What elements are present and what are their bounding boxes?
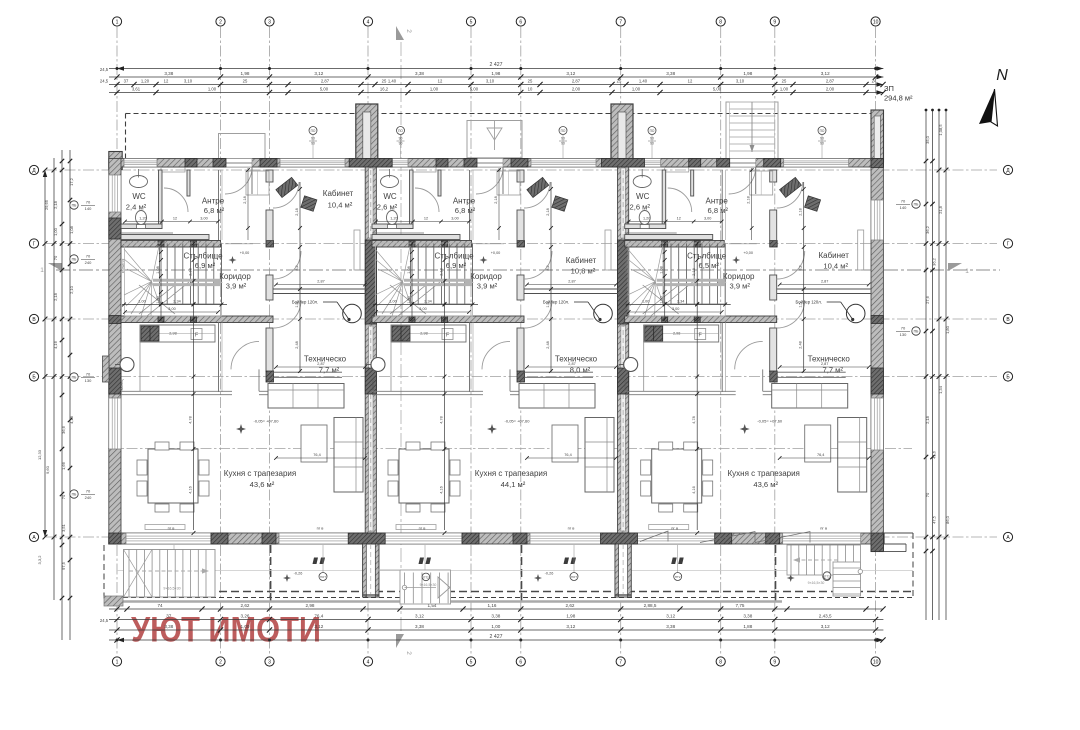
- svg-text:76,4: 76,4: [817, 453, 824, 457]
- svg-text:пг в: пг в: [568, 526, 575, 531]
- svg-text:6,5 м²: 6,5 м²: [698, 261, 719, 270]
- svg-text:5,00: 5,00: [470, 87, 479, 92]
- svg-text:Коридор: Коридор: [723, 272, 755, 281]
- svg-text:2,34: 2,34: [424, 300, 431, 304]
- svg-text:240: 240: [85, 495, 92, 500]
- unit 2 entrance door arc: [476, 167, 503, 194]
- svg-text:70: 70: [901, 199, 906, 204]
- svg-text:1,66: 1,66: [61, 461, 66, 470]
- unit 2 kitchen counter: [391, 325, 466, 342]
- unit 3 antre closet: [750, 171, 773, 195]
- unit 1 kabinet desk: [276, 177, 298, 197]
- svg-text:1,00: 1,00: [208, 87, 217, 92]
- unit 2 entrance door opening: [476, 159, 503, 168]
- unit 1 stair arrow band: [153, 279, 221, 282]
- unit 2 antre-kabinet door arc: [524, 182, 550, 208]
- svg-text:37: 37: [166, 614, 172, 619]
- unit 1 stair dim chain A: [160, 242, 162, 321]
- svg-text:3,00: 3,00: [168, 307, 175, 311]
- svg-text:6,9 м²: 6,9 м²: [195, 261, 216, 270]
- svg-text:17,2: 17,2: [69, 177, 74, 186]
- svg-text:2,10: 2,10: [69, 285, 74, 294]
- svg-text:25: 25: [617, 79, 622, 84]
- svg-text:3,61: 3,61: [132, 87, 141, 92]
- unit 1 terrace glyphs: [168, 558, 174, 565]
- svg-text:3,38: 3,38: [491, 614, 500, 619]
- svg-text:5: 5: [470, 19, 473, 25]
- svg-text:ЗП: ЗП: [884, 84, 894, 93]
- svg-text:1,08: 1,08: [407, 266, 411, 273]
- svg-text:9: 9: [773, 19, 776, 25]
- unit 3 bottom wall dark blocks: [715, 533, 732, 544]
- unit 2 dining table: [399, 449, 449, 503]
- svg-text:ПО: ПО: [561, 129, 566, 133]
- svg-text:3,12: 3,12: [314, 71, 323, 76]
- grid axis 3: [269, 27, 271, 656]
- svg-text:Кюнец: Кюнец: [371, 380, 375, 391]
- left wall window and blocks: [109, 398, 121, 449]
- section line 1: [56, 269, 1000, 271]
- unit 1 kabinet/tehnichesko divider wall: [273, 288, 368, 290]
- svg-text:6,8 м²: 6,8 м²: [455, 206, 476, 215]
- unit 2 bottom wall dark blocks: [462, 533, 479, 544]
- svg-text:3: 3: [268, 659, 271, 665]
- unit 1 corridor-tehnichesko door arc: [273, 300, 301, 328]
- unit 2 WC bottom wall / washbasin counter: [372, 224, 413, 229]
- unit 1 axis G wall: [121, 241, 221, 248]
- svg-text:130: 130: [85, 378, 92, 383]
- svg-text:2,34: 2,34: [173, 300, 180, 304]
- svg-text:3,3,2: 3,3,2: [37, 555, 42, 565]
- svg-text:1,20: 1,20: [390, 217, 397, 221]
- unit 2 kabinet wardrobe: [605, 230, 611, 270]
- grid axis 9: [774, 27, 776, 656]
- unit 2 F label box: [442, 329, 453, 340]
- unit 1 bottom wall windows: [126, 533, 211, 544]
- svg-text:3,38: 3,38: [415, 624, 424, 629]
- svg-text:9: 9: [773, 659, 776, 665]
- svg-text:ПТ2: ПТ2: [675, 575, 681, 579]
- svg-text:2,6 м²: 2,6 м²: [377, 203, 398, 212]
- unit 2 stair dim chain horizontal: [373, 304, 478, 306]
- terrace bold dashed mid line: [123, 591, 913, 593]
- svg-text:8,2: 8,2: [295, 265, 299, 270]
- unit 1 stair dim chain horizontal: [122, 304, 227, 306]
- svg-text:6: 6: [519, 19, 522, 25]
- top dimension chains: [109, 68, 883, 70]
- svg-text:Кабинет: Кабинет: [818, 251, 849, 260]
- svg-text:1: 1: [40, 267, 44, 274]
- unit 1 corridor east wall: [266, 275, 273, 300]
- unit 3 corridor-kitchen door arc: [735, 341, 763, 369]
- svg-text:Антре: Антре: [202, 197, 225, 206]
- unit 2 interior dim chain vertical: [498, 168, 500, 240]
- unit 3 kitchen counter: [644, 325, 719, 342]
- external stair unit 2: [400, 570, 451, 604]
- unit 2 WC sink: [381, 176, 399, 188]
- svg-text:ПБ: ПБ: [72, 258, 77, 262]
- grid axis 8: [720, 27, 722, 656]
- svg-text:70: 70: [925, 492, 930, 497]
- svg-text:70: 70: [86, 372, 91, 377]
- unit 2 under-stair diagonals: [390, 285, 426, 314]
- svg-text:4,78: 4,78: [692, 416, 696, 423]
- svg-text:2,48: 2,48: [295, 341, 299, 348]
- svg-text:2,18: 2,18: [747, 196, 751, 203]
- unit 3 tehnichesko south block: [770, 371, 778, 382]
- svg-text:1: 1: [116, 19, 119, 25]
- unit 1 corridor level mark: [229, 256, 237, 264]
- svg-text:3,9 м²: 3,9 м²: [477, 282, 498, 291]
- unit 3 stair dim chain B: [696, 242, 698, 530]
- unit 3 axis V wall: [625, 316, 777, 323]
- svg-text:12: 12: [688, 79, 693, 84]
- svg-text:1: 1: [965, 268, 969, 275]
- svg-text:2,18: 2,18: [494, 196, 498, 203]
- external stair above unit 3: [726, 102, 778, 159]
- svg-text:10,4 м²: 10,4 м²: [823, 262, 848, 271]
- svg-text:6,8 м²: 6,8 м²: [204, 206, 225, 215]
- unit 2 kabinet dim chain: [550, 182, 552, 372]
- svg-text:9×16,5×30: 9×16,5×30: [420, 583, 437, 587]
- unit 1 kitchen level mark: [236, 424, 246, 434]
- unit 3 corridor-kabinet door arc: [777, 251, 805, 279]
- svg-text:76,4: 76,4: [314, 614, 323, 619]
- unit 1 antre-kabinet door arc: [273, 182, 299, 208]
- section line 2: [400, 42, 402, 638]
- unit 3 sofa vertical: [838, 418, 867, 493]
- svg-text:2,87: 2,87: [317, 280, 324, 284]
- svg-text:3,38: 3,38: [666, 624, 675, 629]
- svg-text:2,18: 2,18: [53, 200, 58, 209]
- svg-text:1,98: 1,98: [566, 614, 575, 619]
- grid axis А: [46, 536, 997, 538]
- unit 3 kabinet wardrobe: [858, 230, 864, 270]
- unit 3 bottom wall windows: [630, 533, 715, 544]
- svg-text:1,00: 1,00: [138, 300, 145, 304]
- grid axis Д: [46, 169, 997, 171]
- unit 2 sofa horizontal: [519, 384, 595, 409]
- svg-text:Кухня с трапезария: Кухня с трапезария: [224, 469, 296, 478]
- svg-text:2,88,5: 2,88,5: [644, 603, 657, 608]
- unit 3 F label box: [695, 329, 706, 340]
- svg-text:24,5: 24,5: [100, 67, 109, 72]
- unit 3 radiator kitchen: [649, 525, 689, 530]
- svg-text:3,12: 3,12: [566, 624, 575, 629]
- svg-text:2,87: 2,87: [821, 280, 828, 284]
- unit 2 bottom wall windows: [377, 533, 462, 544]
- canopy unit 2 with drain: [467, 121, 522, 158]
- svg-text:2,48: 2,48: [546, 341, 550, 348]
- unit 3 hall stub wall: [691, 170, 694, 196]
- grid axis 1: [116, 27, 118, 656]
- svg-text:Г: Г: [1007, 241, 1010, 247]
- unit 3 kitchen level mark: [740, 424, 750, 434]
- unit 2 stair arrow band: [404, 279, 472, 282]
- svg-text:12: 12: [173, 217, 177, 221]
- external stair unit 1: [124, 550, 216, 598]
- svg-text:12: 12: [424, 217, 428, 221]
- svg-text:3,00: 3,00: [200, 217, 207, 221]
- svg-text:24: 24: [872, 79, 877, 84]
- unit 3 kabinet desk: [780, 177, 802, 197]
- party wall 2 terrace stub: [615, 544, 631, 597]
- unit 3 terrace level mark: [787, 574, 795, 582]
- svg-text:8: 8: [719, 19, 722, 25]
- unit 2 kabinet west wall upper: [517, 170, 524, 182]
- svg-text:140: 140: [900, 205, 907, 210]
- unit 1 bottom wall dark blocks: [211, 533, 228, 544]
- left exterior wall band: [109, 159, 121, 545]
- svg-text:ПО: ПО: [311, 129, 316, 133]
- svg-text:2: 2: [405, 651, 412, 655]
- svg-text:36,2: 36,2: [932, 257, 937, 266]
- unit 1 kitchen appliances: [141, 326, 159, 341]
- unit 1 kabinet wardrobe: [354, 230, 360, 270]
- svg-text:140: 140: [85, 206, 92, 211]
- svg-text:4,78: 4,78: [189, 416, 193, 423]
- svg-text:ПБ: ПБ: [72, 493, 77, 497]
- svg-text:Кабинет: Кабинет: [566, 256, 597, 265]
- svg-text:24,5: 24,5: [100, 79, 109, 84]
- svg-text:3,9 м²: 3,9 м²: [729, 282, 750, 291]
- svg-text:10: 10: [873, 19, 879, 25]
- svg-text:Техническо: Техническо: [555, 355, 598, 364]
- grid axis Б: [46, 376, 997, 378]
- unit 2 corridor-kitchen door arc: [482, 341, 510, 369]
- unit 1 entrance door arc: [225, 167, 252, 194]
- unit 1 WC toilet: [136, 211, 147, 225]
- svg-text:1,98: 1,98: [241, 71, 250, 76]
- svg-text:1,88: 1,88: [743, 624, 752, 629]
- unit 2 staircase: [376, 243, 473, 316]
- svg-text:12: 12: [438, 79, 443, 84]
- unit 3 WC bottom wall / washbasin counter: [625, 224, 666, 229]
- svg-text:2,18: 2,18: [546, 208, 550, 215]
- unit 1 staircase: [125, 243, 222, 316]
- unit 3 interior dim chain horizontal: [629, 221, 722, 223]
- unit 1 interior dim chain horizontal: [125, 221, 218, 223]
- right end wall protrusion: [871, 110, 884, 162]
- svg-text:27,6: 27,6: [925, 295, 930, 304]
- svg-text:1,40: 1,40: [639, 79, 648, 84]
- unit 2 corridor-tehnichesko door arc: [524, 300, 552, 328]
- svg-text:пг в: пг в: [820, 526, 827, 531]
- svg-text:76,4: 76,4: [564, 453, 571, 457]
- svg-text:2,18: 2,18: [53, 292, 58, 301]
- unit 3 sofa horizontal: [772, 384, 848, 409]
- svg-text:+0,00: +0,00: [240, 251, 250, 255]
- unit 1 coffee table: [301, 425, 327, 462]
- svg-text:WC: WC: [383, 192, 397, 201]
- svg-text:2,87: 2,87: [572, 79, 581, 84]
- parapet level marks left: [70, 201, 78, 209]
- svg-text:1,50: 1,50: [660, 296, 664, 303]
- unit 3 entrance door opening: [729, 159, 756, 168]
- svg-text:-0,26: -0,26: [294, 572, 303, 576]
- unit 1 radiator kitchen: [145, 525, 185, 530]
- unit 2 terrace glyphs: [419, 558, 425, 565]
- svg-text:2,48: 2,48: [799, 341, 803, 348]
- svg-text:WC: WC: [132, 192, 146, 201]
- svg-text:2,34: 2,34: [677, 300, 684, 304]
- svg-text:12: 12: [677, 217, 681, 221]
- svg-text:7: 7: [619, 19, 622, 25]
- svg-text:3,12: 3,12: [821, 71, 830, 76]
- svg-text:70: 70: [86, 489, 91, 494]
- svg-text:3,38: 3,38: [415, 71, 424, 76]
- svg-text:4,16: 4,16: [440, 486, 444, 493]
- svg-text:70: 70: [53, 255, 58, 260]
- svg-text:10: 10: [528, 87, 533, 92]
- unit 1 sofa vertical: [334, 418, 363, 493]
- svg-text:37: 37: [124, 79, 129, 84]
- svg-text:3: 3: [268, 19, 271, 25]
- svg-text:24,5: 24,5: [100, 618, 109, 623]
- unit 2 axis G wall: [372, 241, 472, 248]
- unit 3 terrace glyphs: [671, 558, 677, 565]
- svg-text:1,08: 1,08: [156, 266, 160, 273]
- right exterior wall band: [871, 159, 883, 552]
- svg-text:16,2: 16,2: [380, 87, 389, 92]
- unit 3 WC toilet: [639, 211, 650, 225]
- unit 1 boiler: [343, 304, 362, 323]
- unit 2 tehnichesko south wall: [524, 371, 593, 373]
- svg-text:8,2: 8,2: [546, 265, 550, 270]
- svg-text:ПБ: ПБ: [72, 376, 77, 380]
- unit 1 stair landing line: [160, 303, 222, 305]
- svg-text:+0,00: +0,00: [491, 251, 501, 255]
- party wall 1 terrace stub: [363, 544, 379, 597]
- svg-text:Кюнец: Кюнец: [120, 380, 124, 391]
- unit 3 WC sink: [633, 176, 651, 188]
- svg-text:1,20: 1,20: [141, 79, 150, 84]
- svg-text:4,18: 4,18: [69, 415, 74, 424]
- svg-text:4,78: 4,78: [440, 416, 444, 423]
- svg-text:3,00: 3,00: [451, 217, 458, 221]
- svg-text:2,87: 2,87: [317, 362, 324, 366]
- svg-text:1,08: 1,08: [660, 266, 664, 273]
- parapet level marks right: [912, 200, 920, 208]
- svg-text:5,00: 5,00: [713, 87, 722, 92]
- svg-text:12,33: 12,33: [37, 449, 42, 460]
- unit 1 antre closet: [246, 171, 269, 195]
- svg-text:2,98: 2,98: [306, 603, 315, 608]
- grid axis 7: [620, 27, 622, 656]
- svg-text:ПТ3: ПТ3: [824, 574, 830, 578]
- unit 2 radiator top: [412, 168, 436, 173]
- svg-text:2: 2: [405, 29, 412, 33]
- unit 1 WC partition wall: [159, 170, 163, 229]
- unit 3 stair dim chain horizontal: [626, 304, 731, 306]
- unit 1 flue circle: [120, 358, 134, 372]
- unit 2 WC partition wall: [410, 170, 414, 229]
- unit 1 top wall dark blocks: [185, 159, 197, 168]
- unit 2 WC toilet: [387, 211, 398, 225]
- svg-text:пг в: пг в: [419, 526, 426, 531]
- svg-text:294,8 м²: 294,8 м²: [884, 94, 913, 103]
- unit 2 tehnichesko south block: [517, 371, 525, 382]
- unit 1 kabinet dim chain: [299, 182, 301, 372]
- svg-text:Кухня с трапезария: Кухня с трапезария: [728, 469, 800, 478]
- svg-text:2,62: 2,62: [241, 603, 250, 608]
- unit 3 interior dim chain vertical: [751, 168, 753, 240]
- unit 2 stair dim chain A: [411, 242, 413, 321]
- svg-text:25: 25: [382, 79, 387, 84]
- svg-text:Антре: Антре: [706, 197, 729, 206]
- svg-text:2,00: 2,00: [572, 87, 581, 92]
- svg-text:1: 1: [116, 659, 119, 665]
- unit 2 hall stub wall: [438, 170, 441, 196]
- svg-text:-0,05= +07,60: -0,05= +07,60: [254, 419, 280, 424]
- unit 1 under-stair diagonals: [139, 285, 175, 314]
- svg-text:2 427: 2 427: [490, 634, 503, 640]
- svg-text:3,10: 3,10: [184, 79, 193, 84]
- unit 2 corridor-kabinet door arc: [524, 251, 552, 279]
- terrace dashed outline: [123, 597, 913, 599]
- unit 2 kabinet desk: [527, 177, 549, 197]
- unit 1 corridor-kitchen door arc: [231, 341, 259, 369]
- svg-text:1,00: 1,00: [642, 300, 649, 304]
- unit 1 kabinet west wall upper: [266, 170, 273, 182]
- roof overhang dashed outline: [126, 113, 878, 115]
- bottom dimension chains: [109, 608, 883, 610]
- svg-text:1,50: 1,50: [407, 296, 411, 303]
- svg-text:1,20: 1,20: [643, 217, 650, 221]
- unit 3 kabinet/tehnichesko divider wall: [777, 288, 872, 290]
- unit 1 inner partition at axis 2: [218, 170, 220, 240]
- unit 3 tehnichesko south wall: [777, 371, 846, 373]
- unit 2 inner partition at axis 2: [469, 170, 471, 240]
- unit 3 coffee table: [805, 425, 831, 462]
- svg-text:Техническо: Техническо: [808, 355, 851, 364]
- svg-text:2,18: 2,18: [243, 196, 247, 203]
- top exterior wall band: [109, 159, 884, 168]
- svg-text:ПБ: ПБ: [72, 204, 77, 208]
- unit 1 tehnichesko south wall: [273, 371, 342, 373]
- party wall 1 chimney: [356, 104, 378, 162]
- svg-text:Техническо: Техническо: [304, 355, 347, 364]
- svg-text:21,8: 21,8: [938, 205, 943, 214]
- unit 2 antre closet: [497, 171, 520, 195]
- svg-text:1,98: 1,98: [491, 71, 500, 76]
- svg-text:4,16: 4,16: [692, 486, 696, 493]
- unit 1 F label box: [191, 329, 202, 340]
- svg-text:1,98: 1,98: [743, 71, 752, 76]
- party wall 1: [365, 159, 376, 545]
- unit 3 WC door arc: [668, 188, 692, 212]
- unit 1 axis V wall: [121, 316, 273, 323]
- unit 2 coffee table: [552, 425, 578, 462]
- svg-text:4,16: 4,16: [189, 486, 193, 493]
- unit 1 dining table: [148, 449, 198, 503]
- svg-text:6,9 м²: 6,9 м²: [446, 261, 467, 270]
- svg-text:1,00: 1,00: [632, 87, 641, 92]
- unit 3 axis G wall: [625, 241, 725, 248]
- svg-text:25: 25: [528, 79, 533, 84]
- svg-text:3,12: 3,12: [314, 624, 323, 629]
- svg-text:-0,26: -0,26: [545, 572, 554, 576]
- svg-text:25: 25: [243, 79, 248, 84]
- unit 3 kitchen appliances: [645, 326, 663, 341]
- unit 2 kitchen level mark: [487, 424, 497, 434]
- svg-text:1,80: 1,80: [945, 325, 950, 334]
- unit 1 kitchen counter: [140, 325, 215, 342]
- unit 2 radiator kitchen: [396, 525, 436, 530]
- svg-text:9×16,5×30: 9×16,5×30: [163, 587, 180, 591]
- svg-text:6,8 м²: 6,8 м²: [707, 206, 728, 215]
- unit 1 radiator top: [161, 168, 185, 173]
